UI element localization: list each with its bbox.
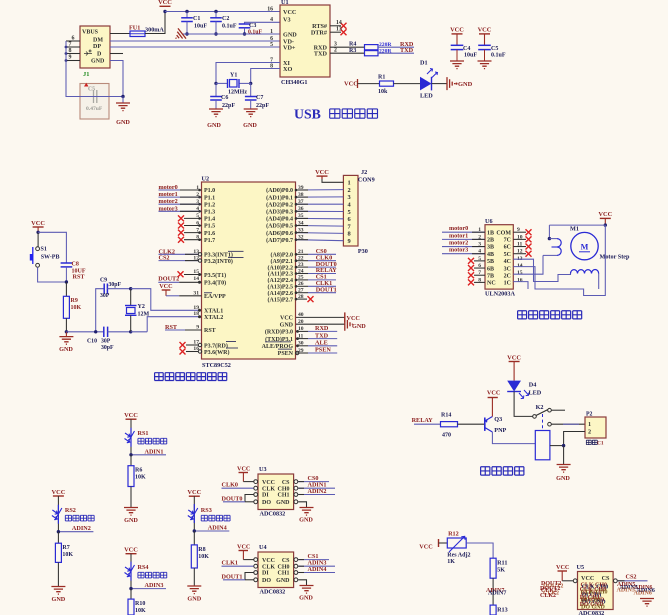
resistor R14 470 — [441, 422, 458, 427]
svg-text:C2: C2 — [222, 16, 229, 22]
svg-text:U5: U5 — [577, 564, 585, 571]
svg-text:U1: U1 — [281, 0, 289, 6]
svg-text:LED: LED — [529, 390, 542, 397]
ground U4 — [298, 580, 306, 586]
svg-text:P1.2: P1.2 — [204, 202, 215, 208]
svg-text:(A15)P2.7: (A15)P2.7 — [268, 296, 294, 303]
svg-text:Y1: Y1 — [230, 73, 237, 79]
svg-text:TXD: TXD — [315, 332, 329, 339]
svg-text:C10: C10 — [87, 339, 97, 345]
wire pin16 stub — [513, 282, 528, 289]
wire J1 GND right down — [110, 61, 123, 97]
svg-text:R14: R14 — [441, 413, 451, 419]
no-connect U6 right pins 9-12 — [513, 231, 526, 233]
svg-text:GND: GND — [280, 322, 294, 328]
svg-text:RS3: RS3 — [201, 507, 212, 514]
VCC rail to U1 pin16 — [165, 11, 280, 13]
net CS2 — [159, 260, 199, 262]
svg-text:10k: 10k — [378, 89, 388, 95]
svg-text:ADC0832: ADC0832 — [579, 610, 605, 615]
svg-text:7B: 7B — [487, 273, 494, 279]
svg-text:16: 16 — [267, 6, 273, 12]
svg-text:CLK: CLK — [262, 564, 275, 570]
svg-text:30pF: 30pF — [109, 282, 122, 288]
GND symbol right of U2 — [296, 323, 345, 325]
svg-text:XO: XO — [283, 66, 292, 73]
svg-text:motor3: motor3 — [449, 247, 468, 254]
svg-text:VCC: VCC — [187, 489, 201, 496]
svg-text:LED: LED — [420, 93, 433, 100]
Q3 collector to relay coil — [492, 432, 535, 444]
svg-text:C6: C6 — [221, 95, 228, 101]
svg-text:motor0: motor0 — [159, 184, 178, 191]
svg-text:P3.7(RD): P3.7(RD) — [204, 342, 228, 349]
svg-text:GND: GND — [299, 595, 313, 602]
svg-text:(A11)P2.3: (A11)P2.3 — [268, 271, 293, 278]
svg-text:K2: K2 — [536, 404, 544, 411]
svg-text:motor0: motor0 — [449, 225, 468, 232]
svg-text:R4: R4 — [349, 42, 356, 48]
svg-text:VCC: VCC — [158, 0, 172, 6]
capacitor C10 30pF — [103, 327, 105, 337]
svg-text:ADIN7: ADIN7 — [488, 591, 506, 597]
connector J1 (USB) — [80, 26, 110, 68]
svg-text:GND: GND — [116, 119, 130, 126]
svg-text:30P: 30P — [101, 339, 111, 345]
crystal Y2 12M — [129, 287, 132, 290]
net DOUT1 to DI DO — [245, 579, 254, 581]
caption MCU min system — [155, 373, 164, 381]
svg-text:PNP: PNP — [494, 427, 506, 434]
svg-text:USB: USB — [294, 107, 321, 122]
svg-text:RS2: RS2 — [65, 507, 76, 514]
svg-text:VCC: VCC — [159, 283, 172, 290]
LED D1 — [394, 83, 421, 85]
svg-text:9: 9 — [348, 238, 351, 245]
photoresistor RS4 — [130, 562, 132, 581]
svg-text:P1.0: P1.0 — [204, 188, 215, 194]
svg-text:CS: CS — [282, 558, 290, 564]
svg-text:9: 9 — [69, 55, 72, 61]
svg-text:GND: GND — [556, 475, 570, 482]
wire coil to P2 pin2 and gnd — [550, 445, 564, 447]
wire R12 to R11 — [466, 543, 493, 558]
capacitor C1 10uF — [185, 10, 188, 13]
svg-text:CLK1: CLK1 — [222, 560, 239, 567]
svg-text:C9: C9 — [100, 278, 107, 284]
no-connect P2.7 — [296, 298, 307, 300]
wire J1 DM to U1 VD- — [110, 40, 280, 42]
svg-text:(AD1)P0.1: (AD1)P0.1 — [266, 194, 293, 201]
svg-text:motor3: motor3 — [159, 205, 178, 212]
capacitor C5 (disabled/gray box) — [80, 84, 109, 120]
svg-text:CLK: CLK — [262, 486, 275, 492]
svg-text:470: 470 — [442, 433, 451, 439]
svg-text:CH0: CH0 — [278, 564, 290, 570]
ground under R9 — [65, 332, 67, 337]
svg-text:M: M — [581, 243, 589, 252]
svg-text:VCC: VCC — [315, 169, 329, 176]
power VCC (USB) — [160, 5, 171, 7]
wire pin14 to bottom rail — [513, 225, 605, 295]
svg-text:ADC0832: ADC0832 — [260, 511, 286, 518]
svg-text:ADIN3: ADIN3 — [145, 582, 164, 589]
driver U6 ULN2003A — [485, 225, 513, 289]
sideways ground (USB gnd) — [172, 28, 186, 43]
svg-text:RS1: RS1 — [138, 430, 149, 437]
transistor Q3 PNP — [484, 418, 486, 431]
svg-text:5B: 5B — [487, 259, 494, 265]
svg-text:VCC: VCC — [237, 466, 250, 473]
svg-text:motor1: motor1 — [159, 191, 178, 198]
resistor R8 10K — [193, 531, 195, 545]
resistor R11 5K — [490, 558, 496, 578]
net CLK2 — [159, 253, 199, 255]
svg-text:FU1: FU1 — [129, 25, 140, 32]
winding right leg — [598, 274, 600, 290]
net CS2 right of U5 — [618, 580, 648, 582]
svg-text:CS: CS — [602, 575, 610, 582]
svg-text:VCC: VCC — [237, 544, 250, 551]
svg-text:ADIN2: ADIN2 — [72, 525, 91, 532]
svg-text:GND: GND — [91, 59, 105, 65]
svg-text:0.1uF: 0.1uF — [491, 53, 506, 59]
potentiometer R12 Res Adj2 1K — [447, 538, 466, 548]
svg-text:(A14)P2.6: (A14)P2.6 — [268, 290, 294, 297]
svg-text:GND: GND — [187, 596, 201, 603]
svg-text:CLK2: CLK2 — [540, 593, 556, 599]
svg-text:(AD0)P0.0: (AD0)P0.0 — [266, 187, 293, 194]
svg-text:C5: C5 — [491, 46, 498, 52]
relay actuation dashed line — [542, 414, 544, 431]
svg-text:C4: C4 — [463, 46, 470, 52]
capacitor C7 22pF — [250, 83, 252, 96]
svg-text:VCC: VCC — [262, 558, 275, 564]
net RELAY — [414, 423, 441, 425]
svg-text:6B: 6B — [487, 266, 494, 272]
photoresistor RS1 — [130, 428, 132, 447]
ground under J1 — [122, 97, 124, 104]
svg-text:14: 14 — [517, 263, 523, 269]
ground under C4 — [450, 61, 464, 69]
svg-text:C8: C8 — [72, 262, 79, 268]
MCU U2 STC89C52 — [202, 182, 296, 359]
wire D4 to K2 — [514, 392, 533, 417]
crystal Y1 12MHz — [214, 82, 217, 85]
svg-text:VCC: VCC — [347, 315, 360, 322]
svg-text:RELAY: RELAY — [412, 417, 434, 424]
svg-text:(A12)P2.4: (A12)P2.4 — [268, 277, 294, 284]
svg-text:PSEN: PSEN — [278, 351, 294, 357]
svg-text:D4: D4 — [529, 382, 537, 389]
horizontal winding — [571, 269, 599, 273]
wire J1 left pins to gnd — [66, 40, 80, 42]
svg-text:TXD: TXD — [314, 50, 328, 57]
power VCC RS2 — [53, 495, 64, 497]
svg-text:Q3: Q3 — [494, 416, 502, 423]
switch S1 SW-PB — [37, 232, 39, 247]
svg-text:CON9: CON9 — [358, 176, 375, 183]
svg-text:Motor Step: Motor Step — [600, 254, 631, 261]
svg-text:4: 4 — [270, 17, 273, 23]
svg-text:P1.3: P1.3 — [204, 210, 215, 216]
svg-text:DI: DI — [262, 493, 269, 499]
svg-text:VCC: VCC — [124, 547, 138, 554]
svg-text:motor2: motor2 — [449, 240, 468, 247]
svg-text:2: 2 — [588, 429, 591, 436]
svg-text:R7: R7 — [62, 545, 69, 551]
svg-text:P2: P2 — [586, 412, 593, 418]
svg-text:(AD4)P0.4: (AD4)P0.4 — [266, 216, 293, 223]
svg-text:10uF: 10uF — [464, 53, 477, 59]
svg-text:7C: 7C — [504, 238, 511, 244]
svg-text:P1.5: P1.5 — [204, 224, 215, 230]
svg-text:GND: GND — [458, 81, 473, 88]
svg-text:P3.6(WR): P3.6(WR) — [204, 349, 230, 356]
svg-text:R1: R1 — [378, 75, 385, 81]
svg-text:1B: 1B — [487, 230, 494, 236]
svg-text:13: 13 — [336, 27, 342, 33]
svg-text:motor2: motor2 — [159, 198, 178, 205]
svg-text:CH1: CH1 — [278, 493, 290, 499]
svg-text:0.47uF: 0.47uF — [86, 106, 103, 112]
svg-text:VCC: VCC — [280, 316, 293, 322]
ground under C7 — [244, 109, 258, 117]
vertical winding — [549, 238, 557, 240]
svg-text:C7: C7 — [256, 95, 263, 101]
svg-text:3: 3 — [334, 41, 337, 47]
svg-text:300mA: 300mA — [145, 26, 164, 33]
nets motor0-3 to U6 — [442, 231, 485, 233]
ground under R6 — [124, 508, 138, 516]
svg-text:0.1uF: 0.1uF — [248, 30, 262, 36]
svg-text:VCC: VCC — [31, 220, 45, 227]
svg-text:(A8)P2.0: (A8)P2.0 — [271, 252, 294, 259]
wires U2 P0 to J2 — [296, 189, 343, 191]
ground right of U5 — [640, 599, 654, 607]
svg-text:CS: CS — [282, 480, 290, 486]
svg-text:3B: 3B — [487, 245, 494, 251]
svg-text:ADIN4: ADIN4 — [308, 566, 327, 573]
capacitor C6 22pF — [215, 83, 217, 96]
svg-text:DP: DP — [93, 44, 101, 50]
net TXD — [378, 52, 414, 54]
svg-text:10K: 10K — [135, 608, 146, 614]
svg-text:GND: GND — [283, 31, 297, 38]
no-connect U6 left pins 5-8 — [474, 260, 485, 262]
svg-text:VBUS: VBUS — [82, 30, 99, 36]
svg-text:GND: GND — [243, 122, 257, 129]
svg-text:DI CH1: DI CH1 — [581, 597, 601, 603]
svg-text:CLK CH0: CLK CH0 — [581, 589, 608, 595]
svg-text:C1: C1 — [193, 16, 200, 22]
svg-text:GND: GND — [276, 578, 290, 584]
wire R11 down — [492, 578, 494, 605]
power VCC above D4 — [509, 361, 520, 363]
wire K2 to P2 pin1 — [551, 423, 585, 425]
svg-text:DI: DI — [262, 571, 269, 577]
svg-text:(A10)P2.2: (A10)P2.2 — [268, 264, 294, 271]
svg-text:CH340G1: CH340G1 — [281, 79, 307, 86]
resistor R3 220R (TXD) — [330, 52, 365, 54]
net DOUT0 to DI DO — [245, 501, 254, 503]
svg-text:CH0: CH0 — [278, 486, 290, 492]
svg-text:RST: RST — [73, 274, 86, 281]
svg-text:DOUT1: DOUT1 — [316, 286, 337, 293]
svg-text:22pF: 22pF — [222, 103, 235, 109]
svg-text:GND: GND — [52, 596, 66, 603]
svg-text:CS2: CS2 — [159, 255, 170, 262]
svg-text:STC89C52: STC89C52 — [202, 362, 231, 369]
svg-text:5K: 5K — [497, 567, 505, 574]
svg-text:motor1: motor1 — [449, 232, 468, 239]
svg-text:DOUT2: DOUT2 — [540, 586, 560, 592]
power VCC + capacitor C5b — [479, 33, 490, 35]
svg-text:15: 15 — [517, 270, 523, 276]
svg-text:16: 16 — [517, 277, 523, 283]
wire J1 D row stub — [110, 53, 123, 55]
net labels CS0 CLK0 DOUT0 RELAY CS1 CLK1 DOUT1 — [296, 253, 308, 255]
svg-text:CLK0: CLK0 — [222, 482, 239, 489]
svg-text:30P: 30P — [100, 293, 110, 299]
svg-text:6C: 6C — [504, 245, 511, 251]
svg-text:VCC: VCC — [262, 480, 275, 486]
ADC U4 ADC0832 — [258, 552, 294, 588]
relay coil — [535, 431, 550, 460]
svg-text:4C: 4C — [504, 259, 511, 265]
svg-text:VCC: VCC — [581, 575, 594, 582]
svg-text:CS2: CS2 — [626, 574, 637, 581]
svg-text:P3.2(INT0): P3.2(INT0) — [204, 258, 233, 265]
svg-text:(AD2)P0.2: (AD2)P0.2 — [266, 201, 293, 208]
svg-text:14: 14 — [193, 276, 199, 282]
svg-text:RS4: RS4 — [138, 564, 149, 571]
svg-text:U4: U4 — [259, 544, 267, 551]
svg-text:DO: DO — [262, 578, 271, 584]
svg-text:14: 14 — [336, 20, 342, 26]
ground U3 — [298, 502, 306, 508]
svg-text:(A9)P2.1: (A9)P2.1 — [271, 258, 294, 265]
ground under R7 — [51, 587, 65, 595]
svg-text:R9: R9 — [71, 298, 78, 304]
svg-text:GND: GND — [59, 346, 73, 353]
wire pin15 to winding — [513, 255, 543, 274]
svg-text:ADIN2: ADIN2 — [308, 488, 327, 495]
svg-text:VCC: VCC — [598, 211, 612, 218]
resistor R9 10K — [65, 282, 67, 296]
net labels motor0-3 — [159, 189, 202, 191]
svg-text:CH1: CH1 — [278, 571, 290, 577]
svg-text:P1.6: P1.6 — [204, 231, 215, 237]
gnd rail to U1 pin1 — [183, 33, 280, 35]
wire pin13 staircase — [513, 259, 570, 281]
svg-text:S1: S1 — [41, 247, 47, 253]
svg-text:0.1uF: 0.1uF — [222, 24, 237, 30]
svg-text:TXD: TXD — [400, 47, 414, 54]
svg-text:D1: D1 — [420, 60, 428, 67]
svg-text:XTAL1: XTAL1 — [204, 309, 223, 315]
svg-text:(RXD)P3.0: (RXD)P3.0 — [265, 329, 293, 336]
svg-text:3: 3 — [348, 194, 351, 201]
svg-text:ADC0832: ADC0832 — [260, 589, 286, 596]
svg-text:22pF: 22pF — [256, 103, 269, 109]
svg-text:RXD: RXD — [315, 325, 329, 332]
capacitor C8 10UF — [38, 232, 66, 263]
svg-text:VCC: VCC — [487, 390, 500, 397]
svg-text:5: 5 — [270, 42, 273, 48]
svg-text:P1.4: P1.4 — [204, 217, 215, 223]
svg-text:P3.4(T0): P3.4(T0) — [204, 280, 226, 287]
svg-text:RST: RST — [204, 328, 216, 334]
svg-text:R6: R6 — [135, 468, 142, 474]
svg-text:NC: NC — [487, 281, 496, 287]
svg-text:DOUT0: DOUT0 — [222, 495, 243, 502]
svg-text:Y2: Y2 — [138, 304, 145, 310]
svg-text:3C: 3C — [504, 266, 511, 272]
caption charge control — [481, 467, 490, 475]
motor top rail — [549, 224, 605, 226]
svg-text:VCC: VCC — [556, 564, 569, 571]
svg-text:U6: U6 — [485, 218, 493, 225]
U1 XI XO wires to crystal — [216, 63, 280, 84]
svg-text:5C: 5C — [504, 252, 511, 258]
svg-text:GND: GND — [207, 122, 221, 129]
svg-text:8: 8 — [348, 231, 351, 238]
resistor R13 — [490, 605, 496, 615]
net RXD — [378, 46, 414, 48]
svg-text:DTR#: DTR# — [311, 29, 328, 36]
net CLK1 — [222, 565, 254, 567]
power VCC for reset — [33, 226, 44, 228]
nets RXD TXD ALE PSEN — [296, 330, 308, 332]
power VCC + capacitor C4 — [452, 33, 463, 35]
power VCC RS1 — [126, 418, 137, 420]
svg-text:VCC: VCC — [344, 81, 358, 88]
resistor R7 10K — [57, 532, 59, 544]
svg-text:ALE: ALE — [315, 340, 328, 347]
svg-text:30pF: 30pF — [101, 345, 114, 351]
nets CS0 ADIN1 ADIN2 — [298, 481, 329, 483]
power VCC motor — [600, 217, 611, 219]
svg-text:XTAL2: XTAL2 — [204, 315, 223, 321]
svg-text:GND: GND — [299, 517, 313, 524]
svg-text:R12: R12 — [448, 531, 459, 538]
resistor R4 220R (RXD) — [330, 46, 365, 48]
svg-text:DOUT1: DOUT1 — [222, 573, 243, 580]
svg-text:P30: P30 — [358, 248, 368, 255]
svg-text:VCC: VCC — [51, 489, 65, 496]
net DOUT2 with X — [184, 274, 202, 276]
ADC U3 ADC0832 — [258, 474, 294, 510]
svg-text:U3: U3 — [259, 466, 267, 473]
svg-text:D: D — [97, 52, 102, 58]
svg-text:ADIN4: ADIN4 — [208, 525, 227, 532]
ground under C6 — [209, 109, 223, 117]
svg-text:5: 5 — [348, 209, 351, 216]
svg-text:ADIN5: ADIN5 — [617, 588, 635, 594]
svg-text:ULN2003A: ULN2003A — [485, 291, 515, 298]
svg-text:J2: J2 — [361, 169, 367, 176]
op IC U1 CH340G — [280, 5, 330, 77]
svg-text:RST: RST — [165, 324, 178, 331]
sideways ground right of D1 — [447, 77, 455, 90]
svg-text:V3: V3 — [283, 17, 291, 24]
ground under R8 — [187, 586, 201, 594]
svg-text:1: 1 — [270, 29, 273, 35]
photoresistor RS2 — [57, 505, 59, 524]
svg-text:4B: 4B — [487, 252, 494, 258]
svg-text:R3: R3 — [349, 48, 356, 54]
